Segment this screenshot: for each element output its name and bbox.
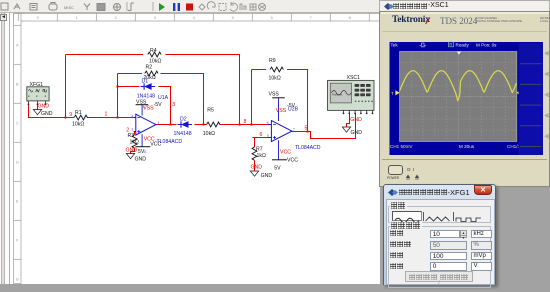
simulation buttons: play pause stop (159, 3, 165, 11)
op-amp U2B (268, 98, 292, 160)
svg-text:10kΩ: 10kΩ (203, 131, 215, 137)
resistor R3 (132, 135, 137, 148)
svg-text:9: 9 (69, 112, 72, 118)
svg-text:D2: D2 (180, 117, 187, 123)
menu separator (520, 104, 542, 106)
wire: D2 anode to R5 left (195, 124, 207, 126)
wire GND: XFG1 common pin to ground (37, 104, 39, 109)
svg-text:10kΩ: 10kΩ (72, 121, 84, 127)
wire net 9: vertical branch to R4 (65, 55, 67, 118)
wire net 3: U1A output to D2 cathode (156, 124, 177, 126)
svg-text:M 20us: M 20us (459, 144, 475, 149)
wire net 1: to D1 cathode (118, 86, 140, 88)
svg-text:U2B: U2B (288, 107, 299, 113)
svg-text:8: 8 (244, 119, 247, 125)
wire net 6: U2B non-inverting input (253, 137, 269, 139)
wire: R2 right down to D2 anode junction (161, 74, 204, 125)
oscilloscope XSC1 box (328, 80, 375, 114)
svg-text:U1A: U1A (158, 95, 169, 101)
trigger level marker left (395, 90, 399, 95)
side arrow (544, 113, 549, 118)
VCC rail U1A (136, 146, 151, 148)
wire net 6: down to R7 (254, 138, 256, 147)
svg-text:3: 3 (172, 102, 175, 108)
svg-text:10kΩ: 10kΩ (269, 75, 281, 81)
svg-text:10kΩ: 10kΩ (149, 59, 161, 65)
svg-text:R3: R3 (128, 133, 135, 139)
scope graticule (400, 52, 517, 142)
svg-text:GND: GND (38, 104, 50, 110)
svg-text:Tek: Tek (391, 43, 399, 48)
svg-text:T: T (391, 91, 394, 96)
ground below XFG1 (33, 110, 41, 115)
wire net 8: R4 right down to node 8 (166, 55, 240, 125)
junction R2/D2/R5 (202, 123, 204, 125)
svg-text:GND: GND (41, 111, 53, 117)
svg-text:VCC: VCC (280, 149, 291, 155)
toolbar icon group: component icons (1, 3, 134, 12)
wire GND: R3 to ground (131, 148, 135, 154)
junction node 8 / R4 (238, 123, 240, 125)
wire net 1: to R2 left (118, 73, 143, 75)
side arrow (544, 92, 549, 97)
diode D2 (178, 124, 182, 126)
screen lower bevel (382, 159, 547, 161)
waveform trace (400, 71, 517, 101)
svg-text:CH1 50mV: CH1 50mV (390, 144, 413, 149)
svg-text:TL084ACD: TL084ACD (157, 139, 183, 145)
svg-text:R7: R7 (256, 146, 263, 152)
side arrow (544, 134, 549, 139)
scope screen frame (390, 42, 544, 155)
marker right (516, 90, 520, 95)
svg-text:11: 11 (144, 149, 147, 153)
svg-text:1kΩ: 1kΩ (257, 153, 266, 159)
svg-text:R4: R4 (150, 48, 157, 54)
resistor R7 (252, 147, 257, 160)
svg-text:E: E (16, 198, 19, 203)
svg-text:3: 3 (132, 128, 134, 132)
svg-text:C: C (16, 120, 19, 125)
VSS rail U1A (136, 104, 149, 106)
wire net 2: U1A non-inverting input stub (134, 131, 135, 133)
menu separator (520, 146, 542, 148)
svg-text:Tektronix: Tektronix (332, 92, 343, 96)
wire net 8: vertical to R9 left (251, 70, 253, 125)
svg-text:6: 6 (267, 121, 269, 125)
svg-text:R2: R2 (146, 65, 153, 71)
junction node 1 / D1 (116, 85, 118, 87)
side arrow (544, 51, 549, 56)
svg-text:2: 2 (126, 128, 129, 134)
resistor R4 (148, 52, 161, 57)
wire net 2: down to R3 (134, 132, 136, 135)
ground below R7 (250, 171, 258, 176)
VCC rail U2B (272, 159, 287, 161)
VSS rail U2B (272, 97, 285, 99)
wire net 5: R9 right down to U2B output (287, 70, 308, 132)
resistor R5 (207, 122, 220, 127)
svg-text:GND: GND (126, 148, 138, 154)
junction node 8 / R9 (250, 123, 252, 125)
junction node 5 / R9 (306, 130, 308, 132)
svg-text:GND: GND (251, 164, 263, 170)
junction node 3 (169, 123, 171, 125)
menu separator (520, 83, 542, 85)
svg-text:A: A (16, 42, 19, 47)
menu separator (520, 125, 542, 127)
svg-text:GND: GND (261, 173, 273, 179)
svg-text:M Pos: 0s: M Pos: 0s (476, 43, 497, 48)
junction node 1 (116, 116, 118, 118)
svg-text:1kΩ: 1kΩ (130, 139, 139, 145)
svg-text:1N4148: 1N4148 (137, 93, 155, 99)
wire GND: R7 to ground (254, 160, 256, 171)
oscilloscope window XSC1 (379, 0, 550, 187)
resistor R1 (74, 115, 87, 120)
wire GND: XSC1 ground pin to ground (347, 113, 350, 127)
svg-text:-5V: -5V (154, 102, 163, 108)
junction node 9 (64, 116, 66, 118)
svg-text:G: G (16, 276, 19, 281)
svg-text:7: 7 (293, 127, 295, 131)
svg-text:5: 5 (267, 134, 269, 138)
wire net 1: vertical to feedback branches (117, 74, 119, 118)
resistor R2 (145, 71, 158, 76)
svg-text:1: 1 (105, 111, 108, 117)
svg-text:VSS: VSS (143, 106, 154, 112)
svg-text:GND: GND (350, 117, 362, 123)
svg-text:1N4148: 1N4148 (174, 131, 192, 137)
wire net 8: R5 to U2B inverting input (220, 124, 269, 126)
svg-text:VCC: VCC (287, 158, 298, 164)
svg-text:VSS: VSS (276, 108, 287, 114)
svg-text:Ready: Ready (456, 43, 470, 48)
svg-text:XSC1: XSC1 (347, 75, 361, 81)
ground below R3 (126, 154, 134, 159)
wire net 9: top run to R4 left (66, 54, 144, 56)
wire net 1: R1 to U1A inverting input (87, 117, 134, 119)
svg-text:TL084ACD: TL084ACD (295, 145, 321, 151)
trigger pos marker top (457, 52, 462, 55)
svg-text:6: 6 (260, 132, 263, 138)
svg-text:5V: 5V (274, 166, 281, 172)
Tektronix logo band (392, 15, 434, 26)
svg-text:D: D (16, 159, 19, 164)
svg-text:GND: GND (135, 156, 147, 162)
svg-text:R5: R5 (207, 107, 214, 113)
svg-text:R: R (449, 42, 452, 47)
wire net 3: D1 anode down to U1A output (159, 87, 171, 125)
svg-text:VSS: VSS (136, 99, 147, 105)
svg-text:R1: R1 (75, 110, 82, 116)
wire net 9: XFG1 output to R1 (29, 104, 75, 118)
diode D1 (141, 86, 145, 88)
resistor R9 (270, 67, 283, 72)
power button (388, 165, 403, 175)
svg-text:XFG1: XFG1 (30, 82, 44, 88)
wire net 5: U2B output to XSC1 channel pin (292, 113, 356, 138)
function generator window XFG1 (383, 184, 496, 285)
op-amp U1A (134, 105, 156, 147)
menu separator (520, 63, 542, 65)
svg-text:B: B (16, 81, 19, 86)
svg-text:D1: D1 (142, 79, 149, 85)
svg-text:5: 5 (305, 126, 308, 132)
svg-text:GND: GND (351, 130, 363, 136)
svg-text:VCC: VCC (144, 137, 155, 143)
side arrow (544, 71, 549, 76)
ground below XSC1 (342, 127, 350, 132)
svg-text:R9: R9 (269, 58, 276, 64)
svg-text:VSS: VSS (269, 91, 280, 97)
wire net 8: to R9 (252, 69, 267, 71)
function generator XFG1 box (27, 87, 49, 105)
